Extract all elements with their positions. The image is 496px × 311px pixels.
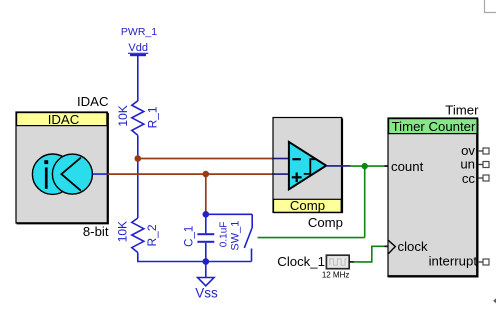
clock source Clock_1 symbol — [326, 255, 349, 269]
pin un terminal — [478, 162, 489, 168]
comp output wire inside — [326, 165, 351, 167]
svg-text:clock: clock — [398, 239, 428, 254]
svg-text:Comp: Comp — [290, 198, 325, 213]
wire Clock_1 to clock pin — [354, 246, 389, 262]
minus sign — [292, 158, 300, 160]
wire stub at clock pin — [385, 245, 390, 247]
resistor R_2 — [132, 218, 144, 253]
Timer U3 block body — [388, 118, 478, 277]
Timer title band — [389, 119, 478, 134]
wire R_1 to R_2 — [137, 135, 139, 218]
svg-text:count: count — [391, 159, 424, 174]
svg-text:IDAC: IDAC — [77, 94, 109, 109]
wire IDAC output to comparator plus input — [108, 173, 274, 175]
IDAC current-source circle left — [32, 154, 72, 194]
IDAC U1 block body — [16, 112, 108, 223]
svg-text:interrupt: interrupt — [429, 254, 478, 269]
Comp title band — [274, 199, 342, 212]
switch SW_1 — [206, 214, 252, 261]
svg-text:Comp: Comp — [308, 215, 343, 230]
capacitor C_1 — [197, 214, 214, 261]
op-amp triangle — [289, 142, 326, 189]
wire comp output to count — [350, 165, 389, 167]
svg-text:R_2: R_2 — [145, 224, 159, 246]
wire to SW_1 right terminal — [258, 237, 365, 239]
svg-text:10K: 10K — [116, 221, 130, 242]
wire node B down to C_1 top — [205, 174, 207, 214]
ground Vss symbol — [198, 278, 214, 286]
pin cc terminal — [478, 175, 489, 181]
IDAC arrow glyph — [61, 158, 81, 191]
svg-text:Vss: Vss — [195, 286, 218, 301]
svg-text:Timer: Timer — [445, 102, 479, 117]
Vdd underline — [128, 52, 148, 54]
svg-text:C_1: C_1 — [183, 226, 195, 247]
comp input wire plus — [274, 173, 290, 175]
svg-text:12 MHz: 12 MHz — [322, 271, 350, 280]
svg-text:0.1uF: 0.1uF — [218, 222, 229, 248]
junction C top node — [203, 211, 210, 218]
page corner marker top-right — [485, 0, 496, 13]
wire Vdd to R_1 — [137, 55, 139, 101]
svg-text:R_1: R_1 — [146, 106, 160, 128]
svg-text:8-bit: 8-bit — [83, 224, 109, 239]
comp input wire minus — [274, 158, 290, 160]
Vdd power bar — [130, 54, 146, 56]
junction comp output node — [362, 163, 368, 169]
junction bottom rail — [203, 258, 210, 265]
hysteresis symbol — [304, 159, 317, 174]
clock pin chevron — [388, 240, 395, 253]
junction node A — [135, 155, 142, 162]
wire stub at count pin — [385, 165, 390, 167]
wire top node to SW_1 — [206, 213, 252, 215]
svg-text:SW_1: SW_1 — [229, 221, 241, 251]
IDAC output stub — [93, 173, 111, 175]
pin ov terminal — [478, 148, 489, 154]
svg-text:10K: 10K — [116, 105, 130, 126]
svg-text:un: un — [460, 157, 475, 172]
svg-text:PWR_1: PWR_1 — [121, 26, 157, 38]
svg-text:cc: cc — [462, 171, 476, 186]
wire R_2 bottom to rail — [138, 253, 206, 262]
svg-text:IDAC: IDAC — [48, 112, 80, 127]
IDAC title band — [17, 113, 107, 126]
IDAC current-source circle right — [52, 154, 92, 194]
resistor R_1 — [132, 101, 144, 136]
svg-text:Clock_1: Clock_1 — [277, 254, 325, 269]
comparator U2 block body — [273, 118, 342, 213]
junction node B — [203, 171, 210, 178]
pin interrupt terminal — [478, 259, 489, 265]
svg-text:Timer Counter: Timer Counter — [392, 119, 476, 134]
wire down from output node — [364, 166, 366, 238]
wire stub Clock_1 output — [349, 261, 355, 263]
scrollbar arrow fragment bottom-right — [493, 298, 496, 303]
wire node A to comparator minus input — [138, 158, 274, 160]
svg-text:Vdd: Vdd — [128, 42, 148, 54]
IDAC i glyph — [44, 160, 48, 189]
wire to Vss — [205, 262, 207, 278]
plus sign — [292, 173, 302, 183]
